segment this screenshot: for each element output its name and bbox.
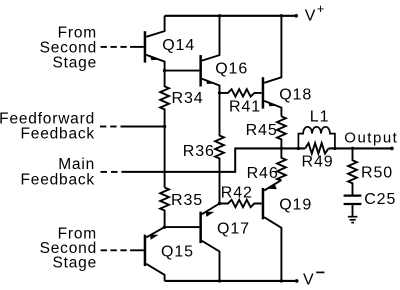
- wire dashed Main Feedback lead to output node: [101, 149, 236, 172]
- transistor Q17: [199, 204, 250, 281]
- svg-text:R45: R45: [246, 122, 278, 139]
- node V+ terminal dot: [294, 14, 298, 18]
- wire R34 to R35: [164, 127, 166, 188]
- svg-text:R46: R46: [247, 165, 279, 182]
- svg-text:R50: R50: [361, 165, 393, 182]
- node Q15 emitter / Q17 base junction: [163, 225, 166, 228]
- node V- label: [303, 272, 324, 289]
- svg-text:R42: R42: [221, 185, 253, 202]
- svg-text:Q14: Q14: [162, 37, 195, 54]
- node Q17 emitter / R42 / R36 junction: [218, 202, 221, 205]
- resistor R46: [247, 148, 286, 182]
- transistor Q16: [199, 16, 248, 93]
- transistor Q15: [144, 227, 194, 281]
- node Output terminal dot: [390, 147, 394, 151]
- node From Second Stage (bottom) label: [40, 225, 97, 271]
- ground: [348, 217, 358, 223]
- wire Q17 base lead: [165, 226, 200, 228]
- node L1 right junction: [333, 147, 336, 150]
- svg-text:C25: C25: [364, 191, 396, 208]
- node From Second Stage (top) label: [40, 25, 97, 72]
- node junction Q16 collector to V+: [218, 14, 221, 17]
- node L1 left junction: [297, 147, 300, 150]
- resistor R49: [302, 143, 334, 171]
- svg-text:R49: R49: [302, 154, 334, 171]
- svg-text:V: V: [303, 272, 314, 289]
- transistor Q18: [262, 16, 312, 117]
- svg-text:R41: R41: [229, 99, 261, 116]
- svg-text:Feedback: Feedback: [21, 125, 95, 142]
- wire dashed From Second Stage to Q14 base: [101, 46, 144, 48]
- svg-text:Stage: Stage: [52, 254, 97, 271]
- svg-text:R36: R36: [183, 143, 215, 160]
- resistor R45: [246, 116, 286, 148]
- svg-text:Q16: Q16: [215, 61, 248, 78]
- svg-text:R34: R34: [172, 90, 204, 107]
- svg-text:Q15: Q15: [161, 244, 194, 261]
- resistor R41: [220, 89, 262, 115]
- svg-text:Q19: Q19: [279, 197, 312, 214]
- node junction Q17 collector to V-: [218, 279, 221, 282]
- svg-text:Feedback: Feedback: [21, 172, 95, 189]
- wire bottom rail V-: [165, 280, 298, 282]
- node junction Q19 collector to V-: [280, 279, 283, 282]
- svg-text:Stage: Stage: [52, 54, 97, 71]
- transistor Q14: [144, 16, 195, 71]
- resistor R36: [183, 93, 224, 204]
- wire top rail V+: [165, 15, 297, 17]
- node feedforward feedback junction: [163, 125, 166, 128]
- svg-text:V: V: [305, 8, 316, 25]
- wire output rail: [234, 147, 305, 149]
- svg-text:Output: Output: [344, 129, 398, 146]
- inductor L1: [298, 109, 335, 149]
- wire output rail right of R49: [329, 147, 393, 149]
- svg-text:Q17: Q17: [217, 221, 250, 238]
- node Main Feedback label: [21, 156, 95, 189]
- capacitor C25: [344, 191, 397, 216]
- svg-text:Main: Main: [58, 156, 95, 173]
- transistor Q19: [262, 180, 312, 281]
- node V- terminal dot: [295, 279, 299, 283]
- node junction Q18 collector to V+: [280, 14, 283, 17]
- wire dashed From Second Stage to Q15 base: [101, 249, 144, 251]
- wire dashed Feedforward Feedback lead: [100, 126, 165, 128]
- svg-text:Q18: Q18: [279, 87, 312, 104]
- node R50 junction: [351, 147, 354, 150]
- svg-text:R35: R35: [171, 192, 203, 209]
- node V+ label: [305, 1, 325, 24]
- resistor R34: [160, 71, 203, 127]
- node Q14 emitter / Q16 base junction: [163, 69, 166, 72]
- resistor R50: [348, 148, 393, 194]
- svg-text:L1: L1: [310, 109, 330, 126]
- resistor R42: [220, 185, 262, 208]
- node Q16 emitter / R41 / R36 junction: [218, 91, 221, 94]
- node Feedforward Feedback label: [0, 110, 95, 142]
- resistor R35: [160, 188, 203, 228]
- svg-text:+: +: [317, 1, 325, 16]
- node R45/R46 output junction: [280, 147, 283, 150]
- wire Q16 base lead: [165, 70, 200, 72]
